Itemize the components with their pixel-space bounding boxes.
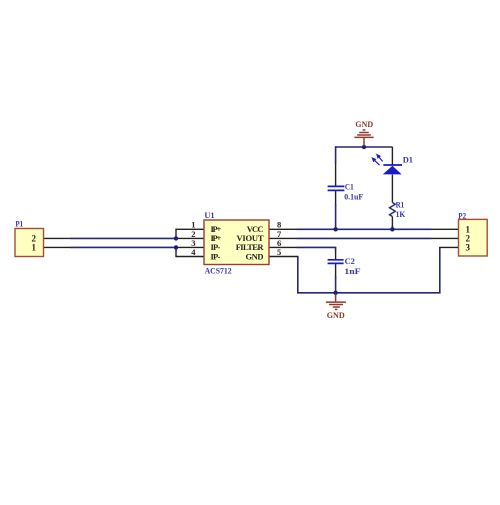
svg-text:GND: GND: [246, 251, 264, 261]
svg-text:4: 4: [191, 247, 196, 257]
svg-text:GND: GND: [327, 310, 345, 320]
svg-text:C2: C2: [345, 256, 355, 266]
svg-text:GND: GND: [355, 119, 373, 129]
svg-text:0.1uF: 0.1uF: [344, 192, 363, 202]
svg-text:1K: 1K: [396, 209, 406, 219]
svg-text:P1: P1: [15, 219, 23, 229]
svg-text:D1: D1: [403, 154, 413, 164]
svg-text:P2: P2: [458, 211, 466, 221]
svg-text:C1: C1: [345, 182, 354, 192]
svg-text:1nF: 1nF: [344, 266, 360, 276]
svg-text:1: 1: [32, 242, 37, 252]
svg-text:5: 5: [277, 247, 281, 257]
svg-text:IP-: IP-: [211, 251, 221, 261]
svg-text:3: 3: [466, 242, 471, 252]
svg-text:ACS712: ACS712: [205, 266, 232, 276]
svg-text:U1: U1: [204, 210, 214, 220]
